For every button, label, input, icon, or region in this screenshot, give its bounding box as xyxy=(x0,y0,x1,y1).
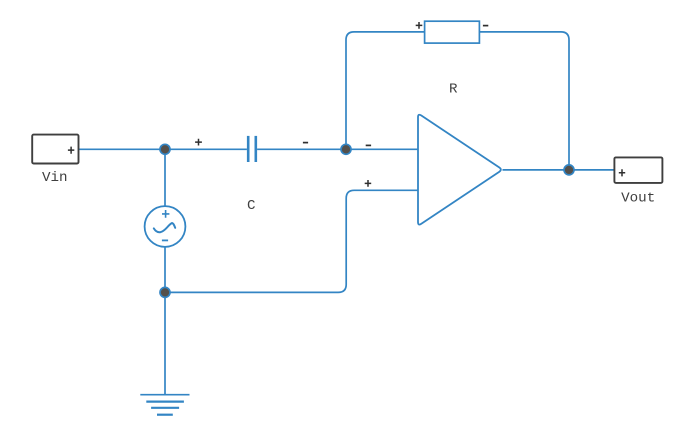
wire source V1 bottom to node D xyxy=(164,247,166,293)
wire op-amp non-inverting input to node D xyxy=(165,190,418,292)
op-amp non-inverting label xyxy=(365,180,372,187)
wire op-amp output to output node xyxy=(503,169,570,171)
wire output node to Vout xyxy=(569,169,614,171)
op-amp inverting label xyxy=(366,144,371,146)
source V1 minus sign xyxy=(162,239,168,241)
svg-text:Vin: Vin xyxy=(42,170,68,186)
capacitor minus polarity xyxy=(303,142,308,144)
wire node B to op-amp inverting input xyxy=(346,148,418,150)
source V1 sine wave xyxy=(154,223,175,232)
terminal Vout box xyxy=(614,157,662,183)
wire node D down to ground xyxy=(164,292,166,394)
svg-text:C: C xyxy=(247,198,256,214)
wire capacitor C right plate to node B xyxy=(257,148,346,150)
node B junction xyxy=(341,144,351,154)
wire node A down to source V1 top xyxy=(164,149,166,206)
terminal Vout plus pin xyxy=(619,169,625,176)
capacitor C plates xyxy=(248,136,256,162)
source V1 plus sign xyxy=(162,210,169,218)
wire feedback left: node B up to resistor R xyxy=(346,32,425,149)
terminal Vin box xyxy=(32,135,78,164)
resistor minus polarity xyxy=(483,25,488,27)
op-amp U1 triangle xyxy=(418,115,501,225)
wire node A to capacitor C left plate xyxy=(165,148,247,150)
resistor R body xyxy=(425,21,480,43)
wire Vin to node A xyxy=(79,148,166,150)
terminal Vin plus pin xyxy=(68,147,74,154)
resistor plus polarity xyxy=(416,22,423,29)
ground xyxy=(140,395,189,415)
svg-text:R: R xyxy=(449,82,458,98)
node OUT junction xyxy=(564,165,574,175)
capacitor plus polarity xyxy=(195,139,202,146)
wire feedback right: resistor R down to output node xyxy=(479,32,569,170)
svg-text:Vout: Vout xyxy=(621,191,655,207)
node D junction xyxy=(160,287,170,297)
source V1 circle xyxy=(145,206,186,247)
node A junction xyxy=(160,144,170,154)
